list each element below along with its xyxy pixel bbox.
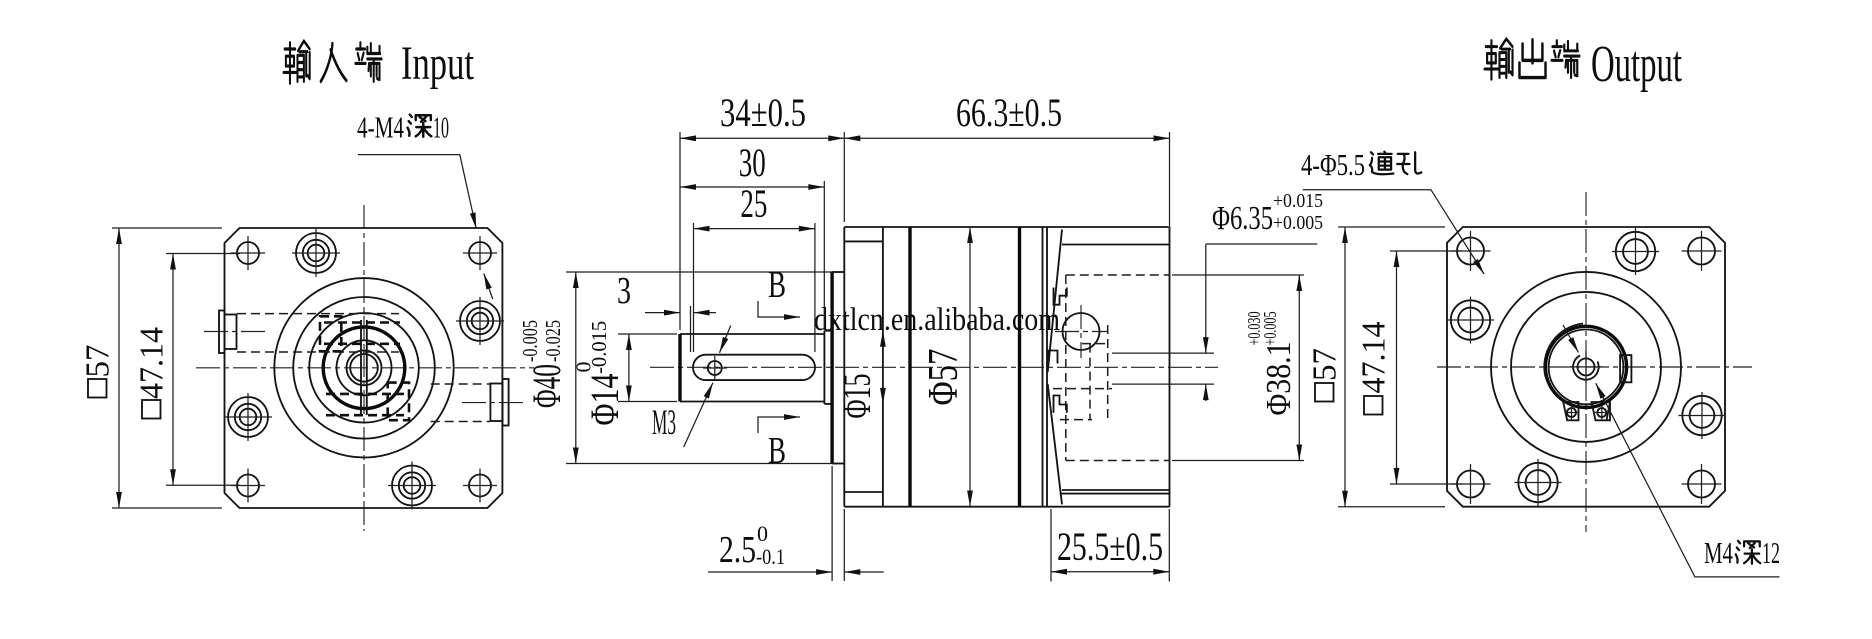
svg-text:10: 10	[433, 110, 449, 145]
input right tab hidden lines	[431, 383, 490, 385]
gearbox body left face	[843, 227, 845, 507]
svg-text:57: 57	[1307, 348, 1344, 381]
leader M4 depth12	[1596, 383, 1780, 577]
output cap chamfer cone lower	[1048, 384, 1062, 504]
svg-text:Φ38.1: Φ38.1	[1259, 342, 1298, 416]
output flange vertical centerline	[1585, 192, 1587, 532]
output M4 tab left	[1563, 402, 1578, 420]
svg-text:-0.005: -0.005	[518, 320, 542, 362]
svg-text:30: 30	[739, 140, 766, 185]
svg-text:-0.025: -0.025	[541, 320, 565, 362]
dimension 34	[680, 90, 844, 330]
input shaft bottom edge	[680, 401, 824, 403]
input corner hole BR (M4)	[463, 469, 497, 503]
leader 4-M4	[358, 155, 476, 229]
output cap bottom edges	[1061, 490, 1170, 494]
input counterbore hole left	[224, 393, 272, 441]
dimension d57	[921, 227, 970, 507]
output flange horizontal centerline	[1437, 366, 1752, 368]
output boss circle	[1511, 292, 1661, 442]
input flange vertical centerline	[363, 205, 365, 531]
dimension square47.14 right	[1356, 251, 1463, 484]
output shaft circle inner	[1549, 330, 1624, 405]
input pilot circle d40	[274, 278, 453, 457]
gearbox body bottom edge	[844, 506, 1169, 508]
dimension 30	[680, 140, 824, 330]
output counterbore bottom	[1515, 459, 1562, 506]
gearbox body top edge	[844, 226, 1168, 228]
input hidden keyway rect lower-right	[388, 383, 409, 421]
svg-text:M3: M3	[652, 402, 676, 442]
input shaft spline lines	[360, 320, 362, 415]
output corner hole BL (d5.5)	[1451, 464, 1491, 504]
output center hole	[1570, 351, 1602, 383]
dimension 25.5	[1051, 509, 1169, 582]
dimension d6.35	[1206, 190, 1323, 401]
label 4-M4 depth10	[357, 110, 449, 145]
output flange outline	[1447, 227, 1725, 507]
input bore outer circle	[347, 350, 382, 385]
svg-text:Φ6.35: Φ6.35	[1212, 200, 1273, 237]
title Output (输出端 Output)	[1485, 36, 1683, 93]
svg-text:47.14: 47.14	[1356, 322, 1393, 394]
svg-text:-0.1: -0.1	[756, 544, 785, 569]
svg-text:0: 0	[572, 362, 596, 373]
input corner hole TR (M4)	[463, 236, 497, 270]
cap small step	[1049, 351, 1058, 364]
input corner hole TL (M4)	[231, 236, 265, 270]
keyway M3 hole	[703, 356, 727, 380]
svg-text:dxtlcn.en.alibaba.com: dxtlcn.en.alibaba.com	[814, 302, 1060, 338]
label 4-d5.5 through hole	[1301, 147, 1421, 182]
cap hidden bore d6.35	[1112, 353, 1214, 384]
svg-text:57: 57	[80, 345, 117, 378]
section mark B bottom	[758, 417, 800, 472]
output cap top edge	[1062, 244, 1170, 246]
shaft keyway slot	[693, 355, 815, 380]
dimension 66.3	[844, 90, 1169, 228]
cap cross pin hole	[1055, 305, 1107, 358]
dimension square57 left	[80, 228, 223, 508]
svg-text:+0.005: +0.005	[1273, 212, 1323, 234]
svg-text:Output: Output	[1591, 36, 1682, 93]
label M4 depth12	[1704, 535, 1780, 570]
output corner hole BR (d5.5)	[1682, 464, 1722, 504]
input hidden keyway band lower	[326, 393, 404, 396]
input shaft left face	[678, 334, 681, 402]
input gear inner circle	[337, 340, 392, 395]
dimension square47.14 left	[134, 254, 241, 486]
dimension 2.5	[708, 466, 884, 581]
output pilot circle	[1491, 272, 1681, 462]
input flange outline	[225, 228, 503, 508]
input corner hole BL (M4)	[231, 469, 265, 503]
output keyway tab	[1620, 355, 1631, 382]
leader M3 upper	[720, 326, 731, 353]
input hidden keyway band upper	[324, 321, 400, 324]
cap hidden bore d38.1	[1066, 275, 1170, 461]
svg-text:4-M4: 4-M4	[357, 110, 404, 145]
svg-text:+0.015: +0.015	[1273, 190, 1323, 212]
input left side tab	[219, 311, 237, 354]
ring section lines	[1043, 227, 1048, 507]
output cap right face	[1169, 227, 1171, 507]
dimension 3	[617, 270, 716, 352]
svg-text:25: 25	[740, 181, 767, 226]
dimension d14	[572, 321, 678, 426]
svg-text:34±0.5: 34±0.5	[720, 90, 806, 135]
collar d15	[824, 331, 832, 404]
svg-text:Φ15: Φ15	[834, 374, 879, 419]
title Input (输入端 Input)	[284, 37, 475, 90]
svg-text:M4: M4	[1704, 535, 1733, 570]
svg-text:0: 0	[757, 521, 768, 546]
svg-text:3: 3	[617, 270, 631, 312]
output counterbore right	[1679, 392, 1726, 439]
output counterbore top	[1612, 228, 1659, 275]
leader 4-d5.5	[1303, 190, 1484, 274]
dimension square57 right	[1307, 227, 1446, 507]
svg-text:25.5±0.5: 25.5±0.5	[1057, 524, 1163, 569]
input shaft top edge	[680, 333, 824, 335]
side view centerline	[650, 366, 1218, 368]
input hidden keyway rect upper-left	[320, 316, 341, 351]
leader M3 lower	[684, 383, 713, 447]
input counterbore hole bottom	[388, 462, 436, 510]
body section line thick 2	[1018, 227, 1021, 507]
cap solid notch upper	[1054, 288, 1067, 305]
output M4 tab right	[1592, 402, 1611, 420]
svg-text:2.5: 2.5	[719, 529, 756, 571]
front plate inner line	[844, 227, 883, 507]
section mark B top	[758, 264, 800, 317]
svg-text:Φ57: Φ57	[921, 349, 967, 406]
svg-text:Input: Input	[401, 37, 474, 90]
body section line thick 1	[908, 227, 911, 507]
output shaft circle outer	[1545, 326, 1626, 407]
boss d40 front face	[832, 272, 844, 464]
svg-text:Φ40: Φ40	[524, 364, 569, 408]
output corner hole TL (d5.5)	[1451, 231, 1491, 271]
dimension d40	[518, 272, 835, 464]
svg-text:Φ14: Φ14	[582, 374, 627, 426]
svg-text:B: B	[768, 264, 786, 306]
output counterbore left	[1447, 297, 1494, 344]
output shaft snap ring arc	[1544, 324, 1583, 378]
input counterbore hole right	[456, 297, 504, 345]
output cap chamfer cone upper	[1048, 230, 1062, 373]
dimension d38.1	[1172, 275, 1304, 461]
cap hidden steps	[1053, 325, 1112, 420]
leader 4-M4 second arrow	[484, 274, 493, 300]
output corner hole TR (d5.5)	[1682, 231, 1722, 271]
input gear outer circle	[323, 327, 405, 409]
input bore inner circle	[350, 354, 378, 382]
dimension 25	[694, 181, 815, 352]
svg-text:12: 12	[1762, 535, 1780, 570]
input flange horizontal centerline	[196, 367, 534, 369]
input counterbore hole top	[292, 229, 340, 277]
leader d6.35 to center	[1563, 325, 1579, 353]
svg-text:+0.005: +0.005	[1260, 312, 1280, 346]
svg-text:4-Φ5.5: 4-Φ5.5	[1301, 147, 1365, 182]
svg-text:B: B	[768, 430, 786, 472]
dimension d15	[834, 331, 883, 419]
input inner ring circle	[309, 313, 419, 423]
cap solid notch	[1054, 396, 1067, 413]
input right side tab	[490, 379, 508, 426]
input left tab hidden lines	[237, 313, 399, 315]
input boss circle	[293, 297, 435, 439]
svg-text:66.3±0.5: 66.3±0.5	[956, 90, 1062, 135]
input right tab centerline	[462, 402, 527, 404]
input left tab centerline	[204, 331, 266, 333]
svg-text:47.14: 47.14	[134, 327, 171, 399]
